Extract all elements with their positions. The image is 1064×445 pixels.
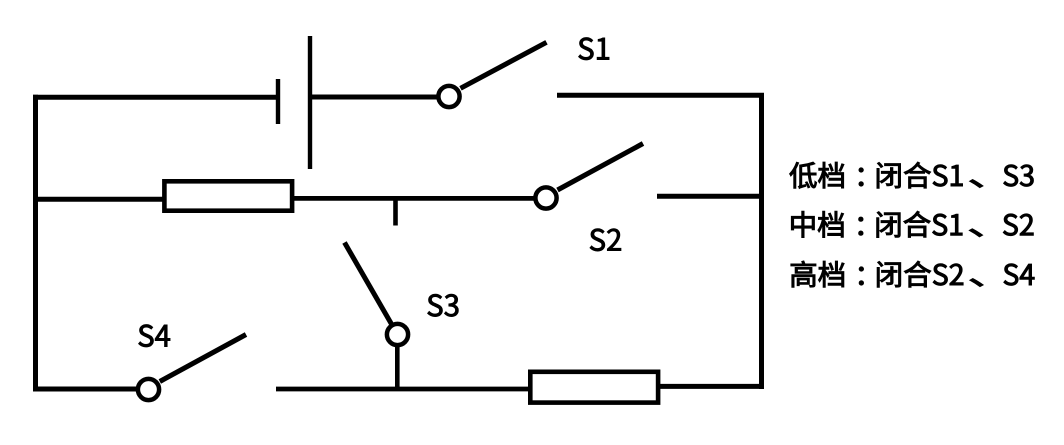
switch S3: contact circle bbox=[387, 324, 408, 345]
label S4 bbox=[139, 325, 170, 347]
wire: S3 circle stub down to bottom wire bbox=[395, 347, 400, 390]
resistor R1 (middle) bbox=[164, 181, 292, 210]
label S2 bbox=[590, 229, 621, 251]
switch S4: open blade bbox=[160, 335, 246, 382]
switch S2: open blade bbox=[558, 144, 644, 191]
wire: middle left horizontal to resistor bbox=[33, 197, 165, 202]
battery: long plate (positive) bbox=[308, 36, 312, 169]
label S3 bbox=[428, 294, 459, 316]
resistor R2 (bottom) bbox=[530, 372, 658, 403]
wire: top right horizontal bbox=[557, 93, 764, 98]
wire: resistor R1 to junction and switch S2 bbox=[294, 196, 536, 201]
switch S3: open blade bbox=[345, 243, 393, 326]
note line 1: low gear bbox=[790, 162, 1034, 188]
switch S1: contact circle bbox=[438, 86, 459, 107]
wire: top left horizontal to battery bbox=[33, 95, 278, 100]
battery: short plate (negative) bbox=[276, 79, 280, 124]
wire: left vertical side bbox=[33, 95, 38, 392]
note line 2: middle gear bbox=[791, 211, 1033, 237]
switch S4: contact circle bbox=[138, 379, 159, 400]
wire: battery to switch S1 bbox=[310, 95, 439, 100]
wire: right vertical side bbox=[759, 95, 764, 389]
switch S1: open blade bbox=[461, 42, 547, 88]
wire: bottom middle horizontal to resistor R2 bbox=[276, 387, 531, 392]
switch S2: contact circle bbox=[535, 187, 556, 208]
wire: bottom left horizontal to switch S4 bbox=[33, 387, 138, 392]
note line 3: high gear bbox=[791, 261, 1034, 287]
label S1 bbox=[579, 38, 609, 60]
wire: resistor R2 to bottom right corner bbox=[658, 384, 764, 389]
wire: middle right horizontal to right side bbox=[657, 194, 762, 199]
junction stub: middle wire down toward S3 bbox=[393, 199, 398, 226]
